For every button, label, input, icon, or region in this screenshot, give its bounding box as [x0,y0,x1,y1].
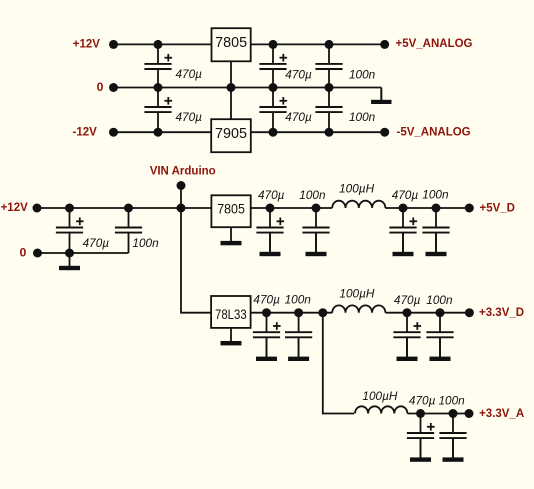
junction +5V_D / C12 [432,204,441,213]
svg-text:470µ: 470µ [392,188,419,202]
svg-text:100µH: 100µH [339,286,374,300]
wire +12V rail to 7805 input [114,43,212,45]
ground (C11) [393,233,414,257]
capacitor C5 100n ceramic (+5V out) [315,44,342,87]
terminal -5V_ANALOG [380,128,389,137]
junction +3.3V_D / C16 [436,308,445,317]
svg-text:7905: 7905 [215,126,247,142]
junction 3.3V / C14 [294,308,303,317]
wire +12V to 7805 input (digital) [37,207,211,209]
junction 3.3V / C13 [262,308,271,317]
wire 7805 output to LC filter [251,207,333,209]
svg-text:0: 0 [20,245,27,259]
terminal +3.3V_A [465,409,474,418]
svg-text:+12V: +12V [73,38,101,50]
svg-text:470µ: 470µ [394,293,421,307]
junction 0V / ground [65,249,74,258]
capacitor C3 470µ electrolytic (+5V out) [259,44,287,87]
terminal +12V (digital) [33,204,42,213]
terminal 0 (digital) [33,249,42,258]
inductor L2 100µH (3.3V_D filter) [332,305,385,312]
terminal +3.3V_D [465,308,474,317]
junction +12V / VIN Arduino tap [177,204,186,213]
terminal +12V (analog) [109,40,118,49]
junction 7805 out / C3 [269,40,278,49]
svg-text:100n: 100n [422,188,449,202]
capacitor C6 100n ceramic (-5V out) [315,88,342,133]
ground (C18) [443,438,464,462]
wire 0V to analog ground symbol [380,88,382,101]
inductor L3 100µH (3.3V_A filter) [355,406,407,413]
svg-text:-5V_ANALOG: -5V_ANALOG [397,126,471,138]
terminal VIN Arduino [177,181,186,190]
inductor L1 100µH (5V filter) [332,201,385,208]
junction -12V / C2 [154,128,163,137]
svg-text:0: 0 [97,80,104,94]
junction +12V / C1 [154,40,163,49]
wire 0V (digital) [38,252,129,254]
svg-text:470µ: 470µ [176,67,203,81]
ground (digital 0V) [59,253,80,270]
ground (C17) [410,438,431,462]
wire VIN Arduino stub [180,186,182,209]
capacitor C1 470µ electrolytic (+12V rail) [144,44,172,87]
wire -12V rail to 7905 input [114,131,212,133]
junction 0V / regulator ground pins [227,83,236,92]
svg-text:100n: 100n [299,188,326,202]
voltage regulator U1 7805 (analog +5V) [212,28,251,61]
voltage regulator U3 7805 (digital +5V) [211,195,250,227]
capacitor C8 100n ceramic (12V input) [115,208,142,253]
svg-text:+3.3V_A: +3.3V_A [479,408,524,420]
svg-text:470µ: 470µ [285,110,312,124]
wire 0V rail [114,87,382,89]
svg-text:100n: 100n [349,110,376,124]
ground (C12) [426,233,447,257]
capacitor C11 470µ electrolytic (5V_D) [389,208,417,252]
ground (C14) [288,337,309,361]
svg-text:VIN Arduino: VIN Arduino [150,166,216,178]
capacitor C2 470µ electrolytic (0V to -12V) [144,88,172,133]
ground (C13) [256,337,277,361]
capacitor C17 470µ electrolytic (3.3V_A) [407,414,435,458]
junction +5V / C9 [266,204,275,213]
svg-text:470µ: 470µ [409,393,436,407]
wire LC filter to +5V_D terminal [385,207,469,209]
ground (analog 0V) [371,88,391,105]
ground (U3 ground pin) [221,227,242,245]
terminal -12V (analog) [109,128,118,137]
wire LC filter to +3.3V_D terminal [386,312,470,314]
svg-text:100µH: 100µH [339,182,374,196]
junction 3.3V / 3.3V_A branch tap [318,308,327,317]
junction 0V / C5 [325,83,334,92]
junction -5V rail / C6 [325,128,334,137]
wire 3.3V tap down to analog LC filter [323,313,354,414]
svg-text:100n: 100n [349,67,376,81]
svg-text:78L33: 78L33 [215,307,247,322]
ground (C16) [430,337,451,361]
junction +3.3V_A / C17 [416,409,425,418]
capacitor C16 100n ceramic (3.3V_D) [426,313,453,357]
voltage regulator U4 78L33 (3.3V) [211,296,251,328]
svg-text:100n: 100n [426,293,453,307]
svg-text:100µH: 100µH [362,389,397,403]
svg-text:100n: 100n [132,236,159,250]
ground (C10) [306,233,327,257]
capacitor C15 470µ electrolytic (3.3V_D) [393,313,421,357]
svg-text:100n: 100n [439,393,466,407]
ground (C15) [397,337,418,361]
junction +5V_D / C11 [399,204,408,213]
junction +12V / C7 [65,204,74,213]
wire +12V down to 78L33 input [181,208,211,313]
wire 7805 ground pin to 0V and 7905 tab [230,61,232,119]
junction 0V / C3 [269,83,278,92]
svg-text:+5V_ANALOG: +5V_ANALOG [396,38,473,50]
svg-text:100n: 100n [285,293,312,307]
wire 78L33 output to LC filter [251,312,333,314]
junction +3.3V_A / C18 [449,409,458,418]
svg-text:470µ: 470µ [258,188,285,202]
ground (C9) [260,233,281,257]
svg-text:7805: 7805 [215,35,247,51]
svg-text:+5V_D: +5V_D [480,203,515,215]
svg-text:+12V: +12V [1,202,29,214]
capacitor C12 100n ceramic (5V_D) [422,208,449,252]
voltage regulator U2 7905 (analog -5V) [211,119,251,152]
junction +3.3V_D / C15 [403,308,412,317]
wire 7805 output to +5V_ANALOG terminal [251,43,385,45]
junction +5V rail / C5 [325,40,334,49]
capacitor C13 470µ electrolytic (3.3V) [253,313,281,357]
terminal +5V_ANALOG [380,40,389,49]
svg-text:-12V: -12V [73,126,98,138]
capacitor C14 100n ceramic (3.3V) [285,313,312,357]
wire 7905 output to -5V_ANALOG terminal [251,131,385,133]
capacitor C9 470µ electrolytic (5V) [256,208,284,252]
junction +12V / C8 [124,204,133,213]
capacitor C18 100n ceramic (3.3V_A) [439,414,466,458]
svg-text:470µ: 470µ [285,67,312,81]
terminal 0 (analog common) [109,83,118,92]
junction 7905 out / C4 [269,128,278,137]
svg-text:470µ: 470µ [176,110,203,124]
junction 0V / C2 [154,83,163,92]
ground (U4 ground pin) [221,328,242,346]
capacitor C4 470µ electrolytic (-5V out) [259,88,287,133]
wire LC filter to +3.3V_A terminal [407,413,469,415]
junction +5V / C10 [312,204,321,213]
capacitor C10 100n ceramic (5V) [302,208,329,252]
svg-text:+3.3V_D: +3.3V_D [479,307,524,319]
capacitor C7 470µ electrolytic (12V input) [56,208,84,253]
svg-text:470µ: 470µ [83,236,110,250]
svg-text:7805: 7805 [217,201,245,216]
terminal +5V_D [465,204,474,213]
svg-text:470µ: 470µ [253,293,280,307]
